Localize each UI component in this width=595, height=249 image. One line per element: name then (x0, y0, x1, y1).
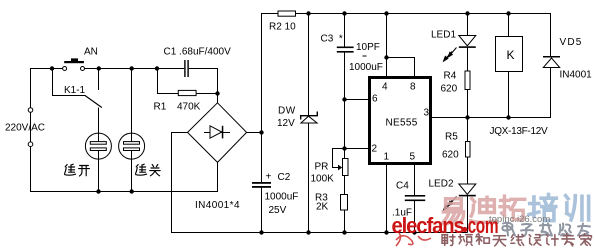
svg-text:VD5: VD5 (560, 37, 583, 48)
svg-text:1: 1 (384, 152, 390, 163)
svg-text:LED1: LED1 (431, 30, 456, 41)
svg-text:K: K (507, 48, 515, 62)
svg-text:NE555: NE555 (386, 118, 418, 129)
svg-text:2K: 2K (316, 201, 329, 212)
svg-text:+: + (266, 172, 272, 183)
svg-text:2: 2 (372, 144, 378, 155)
svg-text:AN: AN (84, 46, 98, 57)
svg-text:10PF: 10PF (356, 42, 380, 53)
svg-text:620: 620 (442, 149, 459, 160)
svg-text:DW: DW (278, 106, 296, 117)
svg-text:R1: R1 (154, 101, 167, 112)
svg-text:100K: 100K (311, 174, 335, 185)
svg-text:1000uF: 1000uF (265, 192, 299, 203)
svg-text:C1 .68uF/400V: C1 .68uF/400V (164, 46, 232, 57)
svg-text:220V/AC: 220V/AC (5, 123, 45, 134)
svg-text:1000uF: 1000uF (349, 62, 383, 73)
svg-text:C2: C2 (278, 172, 291, 183)
svg-text:620: 620 (441, 83, 458, 94)
svg-text:3: 3 (424, 108, 430, 119)
svg-text:PR: PR (315, 162, 329, 173)
svg-text:8: 8 (410, 81, 416, 92)
svg-text:LED2: LED2 (429, 179, 454, 190)
svg-text:6: 6 (372, 93, 378, 104)
svg-text:470K: 470K (177, 101, 201, 112)
svg-text:R4: R4 (444, 71, 457, 82)
svg-text:JQX-13F-12V: JQX-13F-12V (490, 126, 548, 137)
svg-text:K1-1: K1-1 (64, 85, 86, 96)
svg-text:R5: R5 (445, 132, 458, 143)
svg-text:25V: 25V (269, 205, 287, 216)
svg-text:C3 *: C3 * (321, 33, 343, 44)
svg-text:4: 4 (382, 81, 388, 92)
svg-text:12V: 12V (277, 118, 295, 129)
svg-text:topinc.i26.com: topinc.i26.com (489, 214, 550, 225)
svg-text:R2 10: R2 10 (269, 22, 296, 33)
svg-text:5: 5 (410, 152, 416, 163)
svg-text:IN4001: IN4001 (560, 69, 593, 80)
svg-text:IN4001*4: IN4001*4 (195, 200, 240, 211)
svg-text:C4: C4 (396, 181, 409, 192)
